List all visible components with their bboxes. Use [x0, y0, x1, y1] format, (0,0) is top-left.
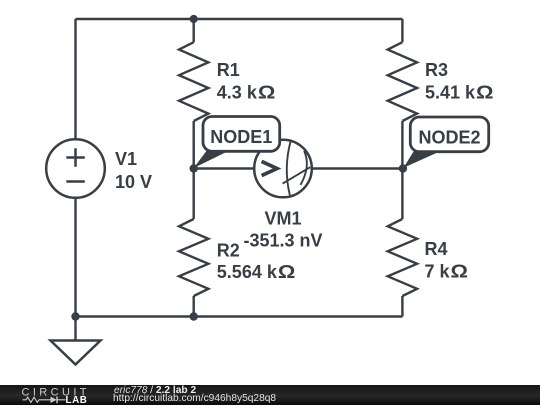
ground [51, 341, 101, 365]
voltage source V1 [46, 139, 105, 198]
wire bottom rail [76, 315, 403, 317]
svg-text:7 kΩ: 7 kΩ [425, 262, 469, 282]
wire R2 top lead [192, 169, 194, 220]
CircuitLab logo [0, 385, 110, 405]
label VM1 value [243, 209, 322, 251]
wire R3 top lead [401, 19, 403, 42]
junction dot bottom rail left [71, 312, 79, 320]
junction node A (NODE1 dot) [190, 164, 198, 172]
voltmeter VM1 [254, 140, 312, 198]
wire top rail [76, 18, 403, 20]
resistor R4 [388, 219, 417, 296]
svg-text:5.564 kΩ: 5.564 kΩ [217, 262, 296, 282]
junction node B (NODE2 dot) [399, 164, 407, 172]
svg-text:VM1: VM1 [264, 209, 301, 229]
svg-text:5.41 kΩ: 5.41 kΩ [425, 83, 494, 103]
wire R3 bottom lead [401, 121, 403, 169]
junction dot top rail [190, 15, 198, 23]
wire R2 bottom lead [192, 296, 194, 317]
svg-text:NODE1: NODE1 [210, 127, 272, 147]
svg-text:4.3 kΩ: 4.3 kΩ [217, 83, 276, 103]
label V1 value [115, 149, 152, 192]
svg-text:R2: R2 [217, 241, 240, 261]
wire ground stub [74, 317, 76, 342]
resistor R2 [179, 219, 208, 296]
svg-text:R3: R3 [425, 60, 448, 80]
wire R1 bottom lead [192, 121, 194, 169]
node NODE1 callout [194, 117, 280, 169]
svg-text:NODE2: NODE2 [418, 127, 480, 147]
svg-text:10 V: 10 V [115, 172, 152, 192]
resistor R3 [388, 42, 417, 121]
label R4 value [425, 239, 469, 282]
svg-text:V1: V1 [115, 149, 137, 169]
label R1 value [217, 60, 276, 103]
svg-text:LAB: LAB [66, 395, 88, 405]
wire R4 top lead [401, 169, 403, 220]
wire R4 bottom lead [401, 296, 403, 317]
wire left branch top (V1 to top rail) [74, 19, 76, 140]
label R2 value [217, 241, 296, 283]
svg-text:R1: R1 [217, 60, 240, 80]
junction dot bottom rail mid [190, 312, 198, 320]
wire R1 top lead [192, 19, 194, 42]
resistor R1 [179, 42, 208, 121]
label R3 value [425, 60, 494, 103]
wire left branch bottom (V1 to bottom rail) [74, 198, 76, 317]
svg-text:R4: R4 [425, 239, 448, 259]
wire middle (NODE1 to NODE2) [194, 167, 403, 169]
svg-text:-351.3 nV: -351.3 nV [243, 231, 322, 251]
node NODE2 callout [404, 117, 489, 168]
